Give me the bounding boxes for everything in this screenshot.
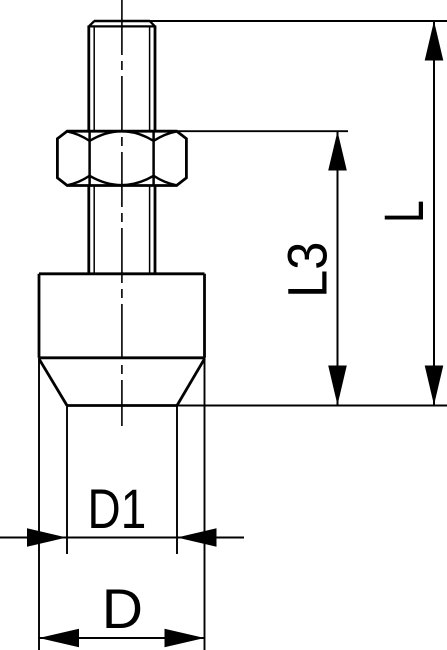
hex nut chamfer arc bottom-right face [154, 176, 177, 186]
wire: thread inner line right (below nut) [149, 186, 151, 274]
arrowhead D1 left (pointing right) [27, 528, 67, 547]
wire: L3 top extension line from nut [177, 130, 348, 132]
L dimension line [433, 21, 435, 405]
hex nut chamfer arc bottom-middle face [90, 176, 154, 185]
svg-text:L: L [374, 200, 436, 222]
D dimension line [39, 637, 205, 639]
wire: bottom extension line for L3 and L [177, 405, 447, 407]
wire: threaded rod outer edge right (above nut) [154, 26, 157, 132]
wire: stud chamfer corner right [150, 21, 155, 26]
wire: threaded rod outer edge left (above nut) [87, 26, 90, 132]
body right edge [203, 274, 206, 358]
arrowhead D1 right (pointing left) [177, 528, 217, 547]
arrowhead D left (pointing left) [39, 629, 79, 648]
svg-text:L3: L3 [277, 242, 339, 298]
cone taper right [177, 359, 205, 406]
body left edge [38, 274, 41, 358]
wire: stud top thick part [94, 20, 150, 23]
cone taper left [39, 359, 67, 406]
wire: thread inner line right (above nut) [149, 27, 151, 131]
wire: D1 extension line left [66, 406, 68, 555]
arrowhead L top (pointing up) [425, 21, 444, 61]
wire: thread inner line left (below nut) [93, 186, 95, 274]
arrowhead L3 top (pointing up) [328, 131, 347, 170]
wire: D extension line left [38, 358, 40, 650]
hex nut chamfer arc top-right face [154, 131, 177, 141]
wire: threaded rod outer edge left (below nut) [87, 186, 90, 274]
L3 dimension line [337, 131, 339, 405]
hex nut outline [57, 131, 186, 185]
svg-text:D: D [102, 578, 143, 640]
hex nut face division right [152, 131, 155, 185]
hex nut chamfer arc top-middle face [90, 131, 154, 141]
arrowhead L3 bottom (pointing down) [328, 366, 347, 406]
hex nut face division left [88, 131, 91, 185]
wire: threaded rod outer edge right (below nut) [154, 186, 157, 274]
wire: stud top chamfer line + L top extension line [94, 20, 447, 22]
wire: thread inner line left (above nut) [93, 27, 95, 131]
wire: stud shoulder line [89, 25, 155, 27]
hex nut chamfer arc top-left face [67, 131, 89, 141]
body bottom line [39, 356, 205, 359]
arrowhead D right (pointing right) [165, 629, 205, 648]
D1 dimension line [0, 537, 244, 539]
tip bottom edge [67, 404, 177, 407]
wire: D1 extension line right [176, 406, 178, 555]
arrowhead L bottom (pointing down) [425, 366, 444, 406]
centerline [121, 0, 123, 426]
svg-text:D1: D1 [88, 478, 147, 540]
body top edge [39, 272, 205, 275]
wire: D extension line right [204, 358, 206, 650]
hex nut chamfer arc bottom-left face [67, 176, 89, 186]
wire: stud chamfer corner left [89, 21, 95, 26]
